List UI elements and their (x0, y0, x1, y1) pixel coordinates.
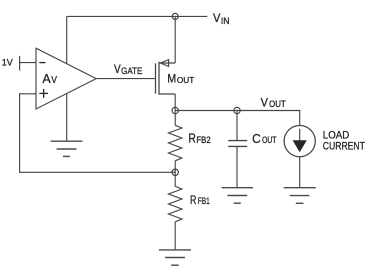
svg-text:R: R (190, 193, 196, 207)
svg-text:M: M (167, 71, 176, 85)
svg-text:IN: IN (221, 16, 230, 26)
svg-text:A: A (42, 71, 51, 86)
svg-text:C: C (252, 131, 261, 146)
svg-text:R: R (188, 130, 196, 145)
svg-text:FB1: FB1 (198, 196, 210, 206)
svg-text:1V: 1V (2, 58, 13, 68)
svg-text:OUT: OUT (262, 135, 277, 145)
svg-text:CURRENT: CURRENT (323, 141, 365, 153)
svg-text:OUT: OUT (177, 75, 195, 85)
svg-text:GATE: GATE (121, 66, 142, 76)
svg-text:FB2: FB2 (196, 135, 210, 145)
svg-text:OUT: OUT (269, 99, 286, 109)
svg-text:V: V (51, 75, 57, 86)
svg-text:V: V (213, 11, 221, 25)
svg-text:V: V (114, 62, 121, 76)
svg-text:V: V (261, 96, 269, 110)
